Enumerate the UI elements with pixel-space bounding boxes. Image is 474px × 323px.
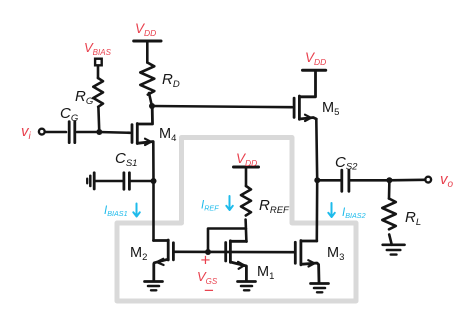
ground under M3 [311, 284, 329, 293]
wire RL node to output terminal [389, 179, 424, 182]
VDD supply bar (above M5) [303, 69, 326, 72]
wire CS2 node down to M3 drain [315, 180, 318, 241]
wire RG bottom lead [97, 107, 100, 130]
wire input to CG [46, 131, 66, 134]
node at CS1 / M4 source [151, 178, 157, 184]
output terminal circle vo [425, 177, 431, 183]
wire VDD bar to RD [146, 42, 149, 63]
wire VDD center bar to RREF [245, 168, 248, 187]
wire node to M5 gate [152, 106, 292, 107]
wire RG top lead [97, 66, 100, 78]
resistor RD [140, 63, 154, 95]
transistor M3 [295, 241, 319, 283]
wire gate bus M2-M1-M3 [174, 251, 296, 254]
resistor RL [382, 199, 396, 230]
svg-text:+: + [201, 251, 211, 270]
highlight box (gray stepped outline) [117, 138, 356, 302]
transistor M5 [294, 71, 316, 120]
node at M4 gate [96, 129, 102, 135]
wire RD bottom to node [149, 93, 152, 105]
label IBIAS2 with arrow (cyan) [328, 203, 335, 217]
transistor M2 (mirrored) [154, 240, 174, 281]
VBIAS terminal square [95, 59, 102, 66]
wire CS2 left [317, 179, 341, 182]
ground under M1 [238, 282, 256, 291]
wire node to M4 gate [99, 131, 130, 134]
node at RD bottom [149, 103, 155, 109]
wire M4 source down to CS1 node [152, 142, 155, 181]
capacitor CS1 [124, 173, 129, 189]
node at RL top [386, 177, 392, 183]
wire CS2 right to RL node [350, 179, 389, 182]
ground under M2 [145, 282, 163, 291]
node at gate bus / VGS [205, 249, 211, 255]
svg-text:−: − [204, 281, 214, 300]
input terminal circle vi [39, 129, 45, 135]
wire RREF bottom to M1 drain [244, 220, 247, 242]
AC ground left of CS1 [87, 173, 94, 189]
resistor RG [93, 78, 103, 107]
wire CS1 node down to M2 drain [152, 181, 155, 241]
wire RL bottom lead [389, 235, 392, 245]
ground under RL [383, 245, 405, 255]
transistor M1 [226, 241, 247, 281]
resistor RREF [241, 186, 251, 215]
capacitor CG [69, 122, 75, 143]
node at CS2 left [314, 177, 320, 183]
transistor M4 [132, 107, 153, 144]
wire M5 drain down to CS2 node [315, 119, 319, 180]
VDD supply bar (above RD) [134, 40, 161, 43]
wire CG to gate node [77, 131, 99, 134]
wire CS1 right to node [130, 180, 153, 183]
wire CS1 left [95, 180, 123, 183]
wire diode connection M1 [208, 229, 246, 253]
capacitor CS2 [342, 170, 349, 191]
VDD supply bar (above RREF) [234, 166, 259, 169]
wire RL top lead [388, 180, 391, 198]
